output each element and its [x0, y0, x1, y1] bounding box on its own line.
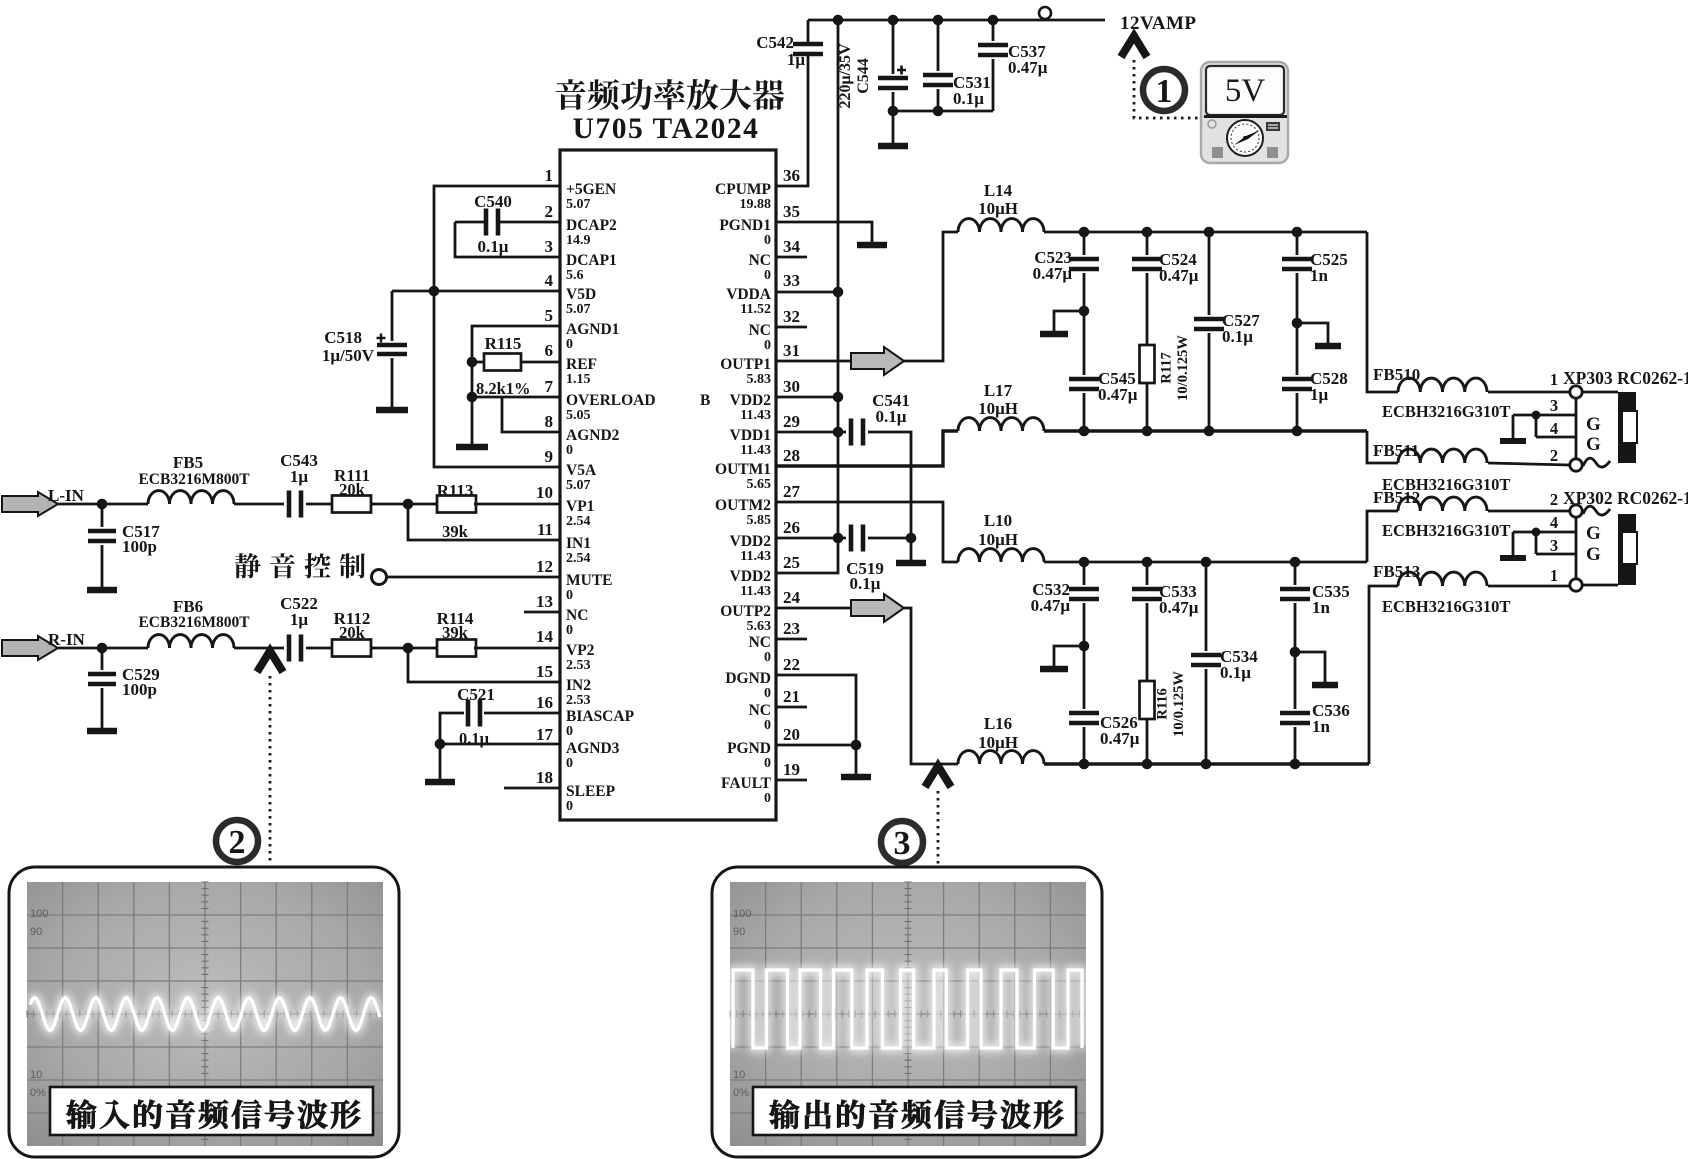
svg-text:22: 22 — [783, 655, 800, 674]
svg-text:VDDA: VDDA — [726, 286, 772, 303]
ground below AGND3 — [439, 744, 442, 779]
svg-text:0: 0 — [764, 718, 771, 733]
ferrite bead FB510 ECBH3216G310T — [1398, 378, 1487, 392]
svg-text:IN1: IN1 — [566, 535, 591, 552]
svg-text:24: 24 — [783, 588, 801, 607]
pin34 NC stub — [776, 256, 807, 259]
wire XP303 pin4 — [1536, 436, 1576, 439]
svg-text:1μ: 1μ — [290, 610, 309, 629]
svg-text:1μ: 1μ — [290, 467, 309, 486]
svg-text:MUTE: MUTE — [566, 572, 613, 589]
wire channel1 top rail — [1044, 231, 1367, 234]
svg-text:10: 10 — [30, 1069, 42, 1081]
svg-text:5.05: 5.05 — [566, 408, 591, 423]
svg-text:0.47μ: 0.47μ — [1159, 266, 1199, 285]
svg-text:ECB3216M800T: ECB3216M800T — [138, 614, 250, 631]
svg-text:5.65: 5.65 — [747, 477, 772, 492]
ferrite bead FB5 ECB3216M800T — [148, 491, 234, 504]
svg-text:13: 13 — [536, 592, 553, 611]
wire pin35 PGND1 to ground — [776, 222, 872, 242]
svg-text:0: 0 — [764, 756, 771, 771]
svg-text:15: 15 — [536, 662, 553, 681]
svg-text:R113: R113 — [437, 481, 474, 500]
svg-text:XP302 RC0262-1P: XP302 RC0262-1P — [1563, 488, 1688, 508]
svg-text:0: 0 — [566, 443, 573, 458]
svg-text:DGND: DGND — [725, 670, 771, 687]
wire pin5 AGND1 — [472, 326, 560, 397]
wire node to pin11 IN1 — [408, 504, 560, 540]
svg-text:L-IN: L-IN — [48, 486, 85, 505]
svg-text:V5A: V5A — [566, 462, 597, 479]
svg-text:12: 12 — [536, 557, 553, 576]
wire pin22 DGND to PGND ground — [776, 675, 856, 745]
svg-text:DCAP1: DCAP1 — [566, 252, 617, 269]
wire C540 to pin2 DCAP2 — [500, 221, 560, 224]
svg-text:FB512: FB512 — [1373, 488, 1420, 507]
svg-text:0.47μ: 0.47μ — [1159, 598, 1199, 617]
wire R113 to pin10 VP1 — [474, 503, 560, 506]
ground at XP303 pins 3-4 — [1500, 438, 1526, 444]
wire pin31 OUTP1 to L14 — [776, 232, 958, 361]
wire VDD bus down right of IC — [776, 20, 838, 573]
svg-text:0.1μ: 0.1μ — [953, 89, 984, 108]
XP302 jack body — [1582, 584, 1618, 587]
svg-text:0%: 0% — [30, 1087, 46, 1099]
pin18 SLEEP stub — [504, 787, 560, 790]
svg-text:5.07: 5.07 — [566, 302, 591, 317]
wire C522 to R112 — [306, 647, 332, 650]
svg-text:2.53: 2.53 — [566, 658, 591, 673]
svg-text:0.47μ: 0.47μ — [1008, 58, 1048, 77]
wire pin33 VDDA to bus — [776, 291, 838, 294]
capacitor C518 1u/50V electrolytic — [391, 291, 394, 341]
wire rail to FB510 — [1367, 232, 1398, 392]
svg-text:L16: L16 — [984, 714, 1012, 733]
wire R112 to R114 — [371, 647, 437, 650]
capacitor C525 1n — [1296, 232, 1299, 255]
svg-text:28: 28 — [783, 446, 800, 465]
capacitor C527 0.1u — [1208, 232, 1211, 315]
wire R111 to R113 — [371, 503, 437, 506]
svg-text:12VAMP: 12VAMP — [1120, 13, 1197, 34]
svg-text:SLEEP: SLEEP — [566, 783, 616, 800]
svg-text:5.07: 5.07 — [566, 197, 591, 212]
capacitor C532 0.47u — [1083, 562, 1086, 585]
svg-text:3: 3 — [545, 237, 554, 256]
svg-text:ECBH3216G310T: ECBH3216G310T — [1382, 597, 1510, 616]
svg-text:1μ: 1μ — [787, 50, 806, 69]
svg-text:NC: NC — [566, 607, 588, 624]
capacitor C540 — [455, 221, 484, 224]
inductor L10 10uH — [958, 549, 1044, 562]
svg-text:0: 0 — [764, 791, 771, 806]
wire C540 loop to pin3 DCAP1 — [455, 222, 560, 257]
ground tap left of C532 — [1054, 646, 1084, 666]
capacitor C526 0.47u — [1069, 713, 1099, 723]
capacitor C541 0.1u — [851, 419, 863, 446]
wire FB510 to XP303 pin1 — [1488, 391, 1570, 394]
svg-text:0: 0 — [764, 686, 771, 701]
capacitor C542 — [793, 44, 823, 54]
svg-text:10μH: 10μH — [978, 530, 1018, 549]
svg-text:0.1μ: 0.1μ — [1222, 327, 1253, 346]
svg-text:8.2k1%: 8.2k1% — [476, 379, 531, 398]
svg-text:1μ/50V: 1μ/50V — [322, 346, 375, 365]
svg-text:VDD2: VDD2 — [730, 392, 772, 409]
resistor R114 39k — [437, 640, 476, 657]
svg-text:R115: R115 — [485, 334, 522, 353]
svg-text:R-IN: R-IN — [48, 630, 86, 649]
svg-text:10: 10 — [733, 1069, 745, 1081]
ground at PGND1 — [857, 242, 887, 249]
svg-text:C544: C544 — [855, 58, 872, 94]
wire pin26 VDD2 to C519 — [776, 537, 846, 540]
svg-text:14.9: 14.9 — [566, 233, 591, 248]
svg-text:C518: C518 — [324, 328, 362, 347]
wire channel2 bottom rail — [1044, 762, 1369, 765]
svg-text:100: 100 — [30, 908, 48, 920]
svg-text:VDD2: VDD2 — [730, 533, 772, 550]
svg-text:5V: 5V — [1225, 73, 1266, 109]
svg-text:100p: 100p — [122, 680, 157, 699]
wire 12V top rail — [808, 19, 1105, 22]
svg-text:DCAP2: DCAP2 — [566, 217, 617, 234]
capacitor C536 1n — [1280, 713, 1310, 723]
svg-text:V5D: V5D — [566, 286, 596, 303]
numbered circle 1 — [1143, 69, 1185, 111]
svg-text:2: 2 — [1550, 446, 1558, 465]
svg-text:7: 7 — [545, 377, 554, 396]
ground below C529 — [87, 728, 117, 735]
svg-text:XP303 RC0262-1P: XP303 RC0262-1P — [1563, 368, 1688, 388]
capacitor C521 0.1u — [484, 712, 560, 715]
svg-text:33: 33 — [783, 271, 800, 290]
svg-text:PGND: PGND — [727, 740, 771, 757]
svg-text:NC: NC — [749, 634, 771, 651]
svg-text:11.43: 11.43 — [740, 408, 771, 423]
svg-text:0: 0 — [566, 799, 573, 814]
svg-text:39k: 39k — [442, 522, 469, 541]
XP303 jack break squiggle — [1583, 458, 1610, 467]
test point arrow 3 — [925, 766, 951, 787]
capacitor C524 0.47u — [1146, 232, 1149, 255]
svg-text:0: 0 — [566, 623, 573, 638]
svg-text:3: 3 — [1550, 396, 1558, 415]
capacitor C544 220u/35V electrolytic — [892, 20, 895, 74]
pin13 NC stub — [524, 611, 560, 614]
pin32 NC stub — [776, 326, 807, 329]
svg-text:11: 11 — [537, 520, 553, 539]
svg-text:1n: 1n — [1312, 598, 1331, 617]
ground tap left of C523 — [1054, 311, 1084, 331]
svg-text:2.53: 2.53 — [566, 693, 591, 708]
node 12VAMP terminal — [1039, 7, 1051, 19]
svg-text:OUTM1: OUTM1 — [715, 461, 771, 478]
input terminal R-IN — [2, 636, 58, 660]
svg-text:R117: R117 — [1158, 352, 1174, 383]
ground tap right of C525 — [1297, 323, 1328, 343]
wire pin8 AGND2 — [502, 397, 560, 432]
wire C543 to R111 — [306, 503, 332, 506]
svg-text:30: 30 — [783, 377, 800, 396]
capacitor C533 0.47u — [1146, 562, 1149, 585]
svg-text:10/0.125W: 10/0.125W — [1171, 671, 1187, 737]
wire pin24 OUTP2 to L16 — [776, 608, 958, 764]
svg-text:0: 0 — [566, 337, 573, 352]
svg-text:11.43: 11.43 — [740, 549, 771, 564]
oscilloscope frame — [9, 867, 399, 1157]
svg-text:1: 1 — [1156, 73, 1173, 110]
svg-text:100p: 100p — [122, 537, 157, 556]
svg-text:3: 3 — [1550, 536, 1558, 555]
XP302 jack break squiggle — [1583, 506, 1610, 515]
svg-text:FAULT: FAULT — [721, 775, 772, 792]
ground tap right of C535 — [1295, 652, 1325, 682]
svg-text:FB513: FB513 — [1373, 562, 1420, 581]
wire pin7 OVERLOAD — [467, 392, 478, 403]
wire R114 to pin14 VP2 — [474, 647, 560, 650]
svg-text:REF: REF — [566, 356, 597, 373]
svg-text:U705 TA2024: U705 TA2024 — [573, 113, 760, 145]
XP303 jack body — [1582, 391, 1618, 394]
svg-text:14: 14 — [536, 627, 554, 646]
svg-text:L10: L10 — [984, 511, 1012, 530]
svg-text:20k: 20k — [339, 623, 366, 642]
svg-text:4: 4 — [1550, 419, 1558, 438]
svg-text:2: 2 — [229, 824, 246, 861]
svg-text:1: 1 — [545, 166, 554, 185]
svg-text:20: 20 — [783, 725, 800, 744]
resistor R115 8.2k — [467, 357, 478, 368]
svg-text:B: B — [700, 392, 710, 409]
svg-text:90: 90 — [30, 926, 42, 938]
wire rail to FB513 — [1369, 586, 1398, 764]
svg-text:L14: L14 — [984, 181, 1013, 200]
pin21 NC stub — [776, 706, 807, 709]
svg-text:17: 17 — [536, 725, 554, 744]
svg-text:0.1μ: 0.1μ — [850, 574, 881, 593]
svg-text:5.6: 5.6 — [566, 268, 584, 283]
wire XP303 pin3 ground — [1513, 414, 1576, 417]
svg-text:C521: C521 — [457, 685, 495, 704]
svg-text:34: 34 — [783, 237, 801, 256]
wire pin28 OUTM1 to L17 — [776, 431, 958, 466]
resistor R112 20k — [332, 640, 371, 657]
inductor L14 10uH — [958, 219, 1044, 232]
svg-text:21: 21 — [783, 687, 800, 706]
numbered circle 3 — [881, 821, 923, 863]
svg-text:5.85: 5.85 — [747, 513, 772, 528]
svg-text:2.54: 2.54 — [566, 551, 591, 566]
wire pin1 +5GEN / pin9 V5A bus — [434, 186, 560, 467]
svg-text:11.52: 11.52 — [740, 302, 771, 317]
capacitor C519 0.1u — [851, 525, 863, 552]
svg-text:11.43: 11.43 — [740, 584, 771, 599]
svg-text:90: 90 — [733, 926, 745, 938]
svg-text:5.63: 5.63 — [747, 619, 772, 634]
wire rail to FB511 — [1367, 431, 1398, 463]
ground below C517 — [87, 587, 117, 594]
svg-text:G: G — [1586, 523, 1601, 544]
svg-text:0: 0 — [566, 756, 573, 771]
wire pin17 AGND3 — [440, 743, 560, 746]
svg-text:G: G — [1586, 414, 1601, 435]
wire pin20 PGND — [776, 744, 856, 747]
svg-text:NC: NC — [749, 322, 771, 339]
svg-text:5: 5 — [545, 306, 554, 325]
svg-text:6: 6 — [545, 341, 554, 360]
svg-text:OUTP1: OUTP1 — [720, 356, 771, 373]
svg-text:AGND3: AGND3 — [566, 740, 620, 757]
capacitor C543 1u — [289, 491, 301, 518]
capacitor C523 0.47u — [1083, 232, 1086, 255]
wire mute to pin12 MUTE — [387, 576, 560, 579]
wire rail to FB512 — [1367, 511, 1398, 562]
svg-text:+5GEN: +5GEN — [566, 181, 616, 198]
svg-text:5.07: 5.07 — [566, 478, 591, 493]
svg-text:26: 26 — [783, 518, 800, 537]
svg-text:39k: 39k — [442, 623, 469, 642]
svg-text:VP2: VP2 — [566, 642, 595, 659]
resistor R116 10 ohm 0.125W — [1140, 681, 1155, 719]
wire FB513 to XP302 pin1 — [1488, 585, 1570, 588]
capacitor C531 — [937, 20, 940, 71]
wire C541 to ground node — [868, 432, 911, 538]
resistor R111 20k — [332, 496, 371, 513]
numbered circle 2 — [216, 820, 258, 862]
svg-text:OUTM2: OUTM2 — [715, 497, 771, 514]
svg-text:CPUMP: CPUMP — [715, 181, 771, 198]
svg-text:C540: C540 — [474, 192, 512, 211]
svg-text:10: 10 — [536, 483, 553, 502]
svg-text:19.88: 19.88 — [740, 197, 772, 212]
ground below C544 — [878, 143, 908, 150]
svg-text:OVERLOAD: OVERLOAD — [566, 392, 656, 409]
input terminal L-IN — [2, 492, 58, 516]
svg-text:29: 29 — [783, 412, 800, 431]
svg-text:1.15: 1.15 — [566, 372, 591, 387]
wire XP302 pin3 — [1536, 553, 1576, 556]
waveform trace — [733, 970, 1082, 1048]
svg-text:AGND2: AGND2 — [566, 427, 620, 444]
svg-text:OUTP2: OUTP2 — [720, 603, 771, 620]
svg-text:25: 25 — [783, 553, 800, 572]
svg-text:BIASCAP: BIASCAP — [566, 708, 635, 725]
svg-text:220μ/35V: 220μ/35V — [837, 43, 854, 109]
svg-text:5.83: 5.83 — [747, 372, 772, 387]
wire pin29 VDD1 to C541 — [776, 431, 846, 434]
capacitor C529 100p — [101, 648, 104, 670]
pin23 NC stub — [776, 638, 807, 641]
svg-text:8: 8 — [545, 412, 554, 431]
svg-text:2.54: 2.54 — [566, 514, 591, 529]
svg-text:0.47μ: 0.47μ — [1098, 385, 1138, 404]
pin19 FAULT stub — [776, 779, 807, 782]
wire FB511 to XP303 pin2 — [1488, 463, 1570, 465]
svg-text:0: 0 — [566, 724, 573, 739]
svg-text:35: 35 — [783, 202, 800, 221]
svg-text:4: 4 — [1550, 513, 1558, 532]
svg-text:31: 31 — [783, 341, 800, 360]
svg-text:0%: 0% — [733, 1087, 749, 1099]
wire node to pin15 IN2 — [408, 648, 560, 682]
wire pin36 CPUMP up to C542 — [776, 56, 808, 186]
signal arrow OUTP2 — [851, 594, 904, 622]
test point arrow 2 — [257, 651, 283, 672]
ground below C518 — [376, 407, 408, 414]
wire R-IN to FB6 — [58, 647, 148, 650]
svg-text:9: 9 — [545, 447, 554, 466]
ground below R115 node — [471, 397, 474, 444]
inductor L16 10uH — [958, 751, 1044, 764]
resistor R117 10 ohm 0.125W — [1140, 345, 1155, 383]
svg-text:0.47μ: 0.47μ — [1031, 596, 1071, 615]
svg-text:1: 1 — [1550, 370, 1558, 389]
svg-text:0: 0 — [764, 650, 771, 665]
ferrite bead FB513 ECBH3216G310T — [1398, 572, 1487, 586]
svg-text:10/0.125W: 10/0.125W — [1175, 335, 1191, 401]
wire cap bottoms tie — [893, 110, 993, 113]
capacitor C528 1u — [1282, 379, 1312, 389]
svg-text:11.43: 11.43 — [740, 443, 771, 458]
svg-text:0: 0 — [764, 338, 771, 353]
svg-text:32: 32 — [783, 307, 800, 326]
wire L-IN to FB5 — [58, 503, 148, 506]
svg-text:PGND1: PGND1 — [719, 217, 771, 234]
wire FB512 to XP302 pin2 — [1488, 510, 1570, 513]
svg-text:0.47μ: 0.47μ — [1033, 264, 1073, 283]
svg-text:4: 4 — [545, 271, 554, 290]
svg-text:1n: 1n — [1310, 266, 1329, 285]
svg-text:10μH: 10μH — [978, 733, 1018, 752]
multimeter icon 5V — [1201, 62, 1288, 163]
svg-text:1: 1 — [1550, 566, 1558, 585]
svg-text:16: 16 — [536, 693, 553, 712]
signal arrow OUTP1 — [851, 347, 904, 375]
svg-text:NC: NC — [749, 252, 771, 269]
oscilloscope frame — [712, 867, 1102, 1157]
svg-text:0.1μ: 0.1μ — [876, 407, 907, 426]
svg-text:FB510: FB510 — [1373, 365, 1420, 384]
svg-text:0: 0 — [566, 588, 573, 603]
wire pin27 OUTM2 to L10 — [776, 502, 958, 562]
svg-text:VP1: VP1 — [566, 498, 594, 515]
svg-text:IN2: IN2 — [566, 677, 591, 694]
svg-text:2: 2 — [545, 202, 554, 221]
capacitor C534 0.1u — [1205, 562, 1208, 651]
waveform trace — [30, 998, 380, 1031]
svg-text:VDD2: VDD2 — [730, 568, 772, 585]
capacitor C522 1u — [289, 635, 301, 662]
wire FB5 to C543 — [234, 503, 284, 506]
ferrite bead FB6 ECB3216M800T — [148, 635, 234, 648]
ground at XP302 pins 4-3 — [1500, 555, 1526, 561]
svg-text:0: 0 — [764, 268, 771, 283]
svg-text:2: 2 — [1550, 490, 1558, 509]
capacitor C535 1n — [1294, 562, 1297, 585]
wire pin4 V5D — [392, 290, 560, 293]
IC title 音频功率放大器 — [556, 79, 785, 110]
svg-text:0: 0 — [764, 233, 771, 248]
resistor R113 39k — [437, 496, 476, 513]
svg-text:1μ: 1μ — [1310, 385, 1329, 404]
svg-text:ECB3216M800T: ECB3216M800T — [138, 471, 250, 488]
scope caption box — [50, 1087, 373, 1135]
ground below C519 — [910, 538, 913, 560]
ferrite bead FB512 ECBH3216G310T — [1398, 497, 1487, 511]
svg-text:1n: 1n — [1312, 717, 1331, 736]
svg-text:G: G — [1586, 544, 1601, 565]
